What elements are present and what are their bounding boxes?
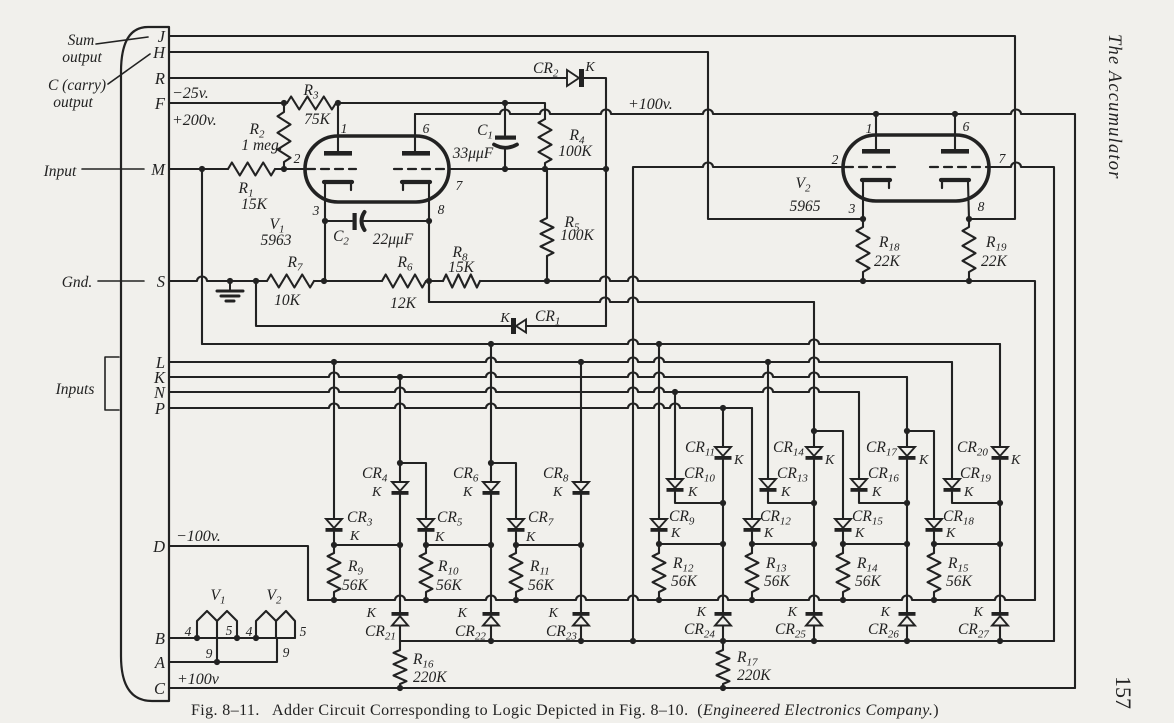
V2 pin 3 lead	[862, 182, 864, 219]
node CR19 bottom	[997, 500, 1003, 506]
wire CR15 node to CR17 column	[843, 543, 907, 545]
svg-text:S: S	[157, 272, 165, 291]
label +100v.	[628, 96, 673, 113]
svg-text:6: 6	[963, 119, 970, 134]
label CR19	[960, 465, 991, 485]
node pin7 line junctions	[502, 166, 609, 172]
diode CR9	[651, 519, 668, 532]
svg-text:10K: 10K	[274, 292, 301, 309]
svg-text:K: K	[548, 606, 559, 621]
svg-text:K: K	[1010, 453, 1021, 468]
pointer line carry to H	[108, 54, 150, 84]
node M line junctions	[199, 166, 287, 172]
column CR6 from M-line	[490, 344, 492, 482]
label CR23	[546, 623, 577, 643]
resistor R2	[278, 103, 291, 169]
V2 grid line left (to matrix via x633)	[633, 163, 843, 642]
label R3	[303, 82, 319, 102]
node CR16 bottom	[904, 500, 910, 506]
svg-text:K: K	[584, 60, 595, 75]
label K of CR24	[696, 605, 707, 620]
V1 left cathode	[324, 182, 352, 190]
resistor R3	[287, 97, 336, 110]
label -100v.	[176, 528, 221, 545]
diode CR26	[899, 612, 916, 626]
column CR12 from P	[751, 408, 753, 519]
svg-text:K: K	[945, 526, 956, 541]
resistor R1	[228, 163, 275, 176]
svg-text:K: K	[854, 526, 865, 541]
resistor R18	[857, 219, 870, 281]
wire CR6 to CR22	[490, 495, 492, 612]
V1 pin 9 stub	[216, 638, 218, 662]
label 10K of R7	[274, 292, 301, 309]
svg-text:K: K	[499, 311, 510, 326]
label R11	[529, 558, 550, 578]
wire L row	[169, 358, 952, 363]
svg-text:56K: 56K	[436, 577, 463, 594]
node CR12 bottom	[749, 541, 817, 547]
wire CR21 to line641	[399, 626, 401, 642]
label CR5	[437, 509, 463, 529]
wire D -100v	[169, 546, 308, 600]
label 220K of R16	[413, 669, 447, 686]
wire CR20 to CR27	[999, 460, 1001, 612]
diode CR19	[944, 479, 961, 492]
resistor R17	[717, 641, 730, 688]
pointer line Gnd to S	[98, 280, 144, 282]
capacitor C1	[494, 136, 517, 148]
svg-text:P: P	[154, 399, 165, 418]
svg-text:K: K	[973, 605, 984, 620]
label Sum output	[62, 32, 102, 66]
label CR15	[852, 508, 883, 528]
terminal letters J H R F M S L K N P D B A C	[150, 27, 166, 698]
svg-text:K: K	[552, 485, 563, 500]
label K of CR22	[457, 606, 468, 621]
label K of CR23	[548, 606, 559, 621]
svg-text:4: 4	[185, 624, 192, 639]
label 12K of R6	[390, 295, 417, 312]
svg-text:100K: 100K	[560, 227, 594, 244]
wire CR12 node to CR14 column	[752, 543, 814, 545]
label CR2	[533, 60, 559, 80]
svg-text:Fig. 8–11. Adder Circuit Cor: Fig. 8–11. Adder Circuit Corresponding t…	[191, 702, 939, 719]
label K of CR20	[1010, 453, 1021, 468]
label CR24	[684, 621, 715, 641]
svg-text:3: 3	[312, 203, 320, 218]
column CR20 from M-line	[999, 344, 1001, 447]
label V2	[796, 175, 811, 195]
label CR27	[958, 621, 989, 641]
label R15	[947, 555, 969, 575]
label K of CR6	[462, 485, 473, 500]
label CR11	[685, 439, 715, 459]
svg-text:K: K	[871, 485, 882, 500]
diode CR12	[744, 519, 761, 532]
V1 pin 3 lead	[324, 184, 326, 281]
V1 pin 1 lead	[337, 103, 339, 151]
label R13	[765, 555, 787, 575]
label CR22	[455, 623, 486, 643]
V1 right cathode	[402, 182, 430, 190]
svg-text:220K: 220K	[413, 669, 447, 686]
wire CR27 to line641	[999, 626, 1001, 642]
label V2 heater	[267, 587, 282, 607]
svg-text:+200v.: +200v.	[172, 112, 217, 129]
wire CR2 cathode to CR1 (vertical x606)	[584, 78, 606, 326]
diode CR11	[715, 447, 732, 460]
svg-text:D: D	[152, 537, 165, 556]
svg-text:B: B	[155, 629, 165, 648]
ground symbol	[217, 281, 243, 301]
svg-text:K: K	[457, 606, 468, 621]
svg-text:22K: 22K	[981, 253, 1008, 270]
svg-text:56K: 56K	[528, 577, 555, 594]
V2 left cathode	[862, 180, 890, 188]
resistor R19	[963, 219, 976, 281]
svg-text:157: 157	[1111, 676, 1136, 709]
label 15K of R8	[448, 259, 475, 276]
wire R6-R8 segment	[426, 280, 443, 282]
label CR10	[684, 465, 715, 485]
label 22K of R18	[874, 253, 901, 270]
label 1 meg.	[241, 137, 282, 154]
diode CR21	[392, 612, 409, 626]
resistor R14	[837, 553, 850, 600]
label R7	[287, 254, 303, 274]
wire A rail	[169, 638, 277, 662]
diode CR1	[511, 318, 526, 334]
wire CR14 to CR25	[813, 460, 815, 612]
label 100K of R5	[560, 227, 594, 244]
node CR3 bottom	[331, 542, 403, 548]
svg-text:K: K	[733, 453, 744, 468]
svg-text:+100v.: +100v.	[628, 96, 673, 113]
label 75K of R3	[304, 111, 331, 128]
pointer line Input to M	[82, 168, 144, 170]
svg-text:A: A	[154, 653, 166, 672]
wire CR13 bottom to CR14 column	[768, 492, 814, 503]
diode CR14	[806, 447, 823, 460]
svg-text:K: K	[687, 485, 698, 500]
node L row junctions	[331, 359, 771, 365]
label V1	[270, 216, 285, 236]
svg-text:56K: 56K	[764, 573, 791, 590]
diode CR8	[573, 482, 590, 495]
wire CR7 bottom	[515, 532, 517, 553]
node CR7 bottom	[513, 542, 584, 548]
column CR17 from K	[906, 377, 908, 447]
node bus junctions	[331, 597, 937, 603]
resistor R4	[539, 119, 552, 169]
wire CR15 bottom	[842, 532, 844, 553]
label R18	[878, 234, 900, 254]
label CR13	[777, 465, 808, 485]
margin text The Accumulator	[1104, 34, 1124, 180]
wire CR3 node to CR4 column	[334, 544, 400, 546]
wire N row	[169, 388, 859, 393]
svg-text:5: 5	[226, 623, 233, 638]
branch CR4 to CR5	[400, 463, 426, 519]
V1 pin 8 lead	[428, 184, 430, 302]
svg-text:C (carry): C (carry)	[48, 77, 106, 94]
svg-text:K: K	[918, 453, 929, 468]
svg-text:15K: 15K	[241, 196, 268, 213]
svg-text:+100v: +100v	[177, 671, 220, 688]
svg-text:Sum: Sum	[68, 32, 95, 49]
svg-text:output: output	[62, 49, 102, 66]
label R1	[238, 180, 254, 200]
resistor R5	[541, 169, 554, 281]
label 56K of R12	[671, 573, 698, 590]
svg-text:22μμF: 22μμF	[373, 231, 414, 248]
label R2	[249, 121, 265, 141]
label K of CR27	[973, 605, 984, 620]
tube V2 envelope	[843, 135, 989, 201]
svg-text:K: K	[462, 485, 473, 500]
diode CR22	[483, 612, 500, 626]
branch CR17 to CR18	[907, 431, 934, 519]
label K of CR1	[499, 311, 510, 326]
label CR3	[347, 509, 373, 529]
svg-text:Input: Input	[43, 163, 77, 180]
V2 right cathode	[941, 180, 969, 188]
label CR8	[543, 465, 569, 485]
label +100v bottom	[177, 671, 220, 688]
wire CR3 to R9 node	[333, 532, 335, 553]
wire V1 cathode node line y302	[429, 281, 814, 302]
node CR10 bottom	[720, 500, 726, 506]
wire CR19 bottom to CR20 column	[952, 492, 1000, 503]
label +200v.	[172, 112, 217, 129]
node P row junctions	[720, 405, 726, 411]
node S rail junctions	[227, 278, 972, 284]
label R6	[397, 254, 413, 274]
label R9	[347, 558, 363, 578]
diode CR24	[715, 612, 732, 626]
svg-text:C: C	[154, 679, 166, 698]
wire CR22 to line641	[490, 626, 492, 642]
V1 grid dashes	[307, 168, 447, 170]
label CR9	[669, 508, 695, 528]
wire C2 row	[325, 220, 430, 222]
label K of CR3	[349, 529, 360, 544]
svg-text:22K: 22K	[874, 253, 901, 270]
diode CR16	[851, 479, 868, 492]
resistor R11	[510, 553, 523, 600]
wire M input line	[169, 168, 228, 170]
svg-text:2: 2	[832, 152, 839, 167]
label CR16	[868, 465, 899, 485]
label 56K of R9	[342, 577, 369, 594]
svg-text:220K: 220K	[737, 667, 771, 684]
svg-text:K: K	[824, 453, 835, 468]
V1 pin 6 lead	[414, 114, 416, 151]
column CR8 from L	[580, 362, 582, 482]
column CR4 from K	[399, 377, 401, 482]
label CR25	[775, 621, 806, 641]
wire R -25v rail	[169, 77, 567, 79]
svg-text:K: K	[525, 530, 536, 545]
resistor R10	[420, 553, 433, 600]
wire M-line to matrix	[202, 340, 1000, 345]
label K of CR5	[434, 530, 445, 545]
V2 right plate	[941, 149, 969, 154]
svg-text:75K: 75K	[304, 111, 331, 128]
svg-text:Gnd.: Gnd.	[62, 274, 93, 291]
label K of CR4	[371, 485, 382, 500]
wire H carry-output rail	[169, 52, 863, 219]
node CR14 branch	[811, 428, 817, 434]
label R8	[452, 244, 468, 264]
svg-text:56K: 56K	[671, 573, 698, 590]
label 220K of R17	[737, 667, 771, 684]
resistor R12	[653, 553, 666, 600]
svg-text:5: 5	[300, 624, 307, 639]
diode CR13	[760, 479, 777, 492]
label K of CR26	[880, 605, 891, 620]
wire CR18 bottom	[933, 532, 935, 553]
label R19	[985, 234, 1007, 254]
resistor R7	[267, 275, 314, 288]
node CR6 branch	[488, 460, 494, 466]
column CR9 from M-line	[658, 344, 660, 519]
svg-text:100K: 100K	[558, 143, 592, 160]
label C2	[333, 228, 349, 248]
wire R3 to R4 top stub	[336, 103, 545, 119]
node CR5 bottom	[423, 542, 494, 548]
label K of CR11	[733, 453, 744, 468]
label CR20	[957, 439, 988, 459]
svg-text:9: 9	[283, 645, 290, 660]
node V2 pin3/pin8 junctions	[860, 216, 972, 222]
label K of CR13	[780, 485, 791, 500]
label K of CR12	[763, 526, 774, 541]
label 100K of R4	[558, 143, 592, 160]
caption Fig. 8-11	[191, 702, 939, 719]
wire CR24 to line641	[722, 626, 724, 642]
wire K row	[169, 373, 907, 378]
label CR21	[365, 623, 396, 643]
column CR3 from L	[333, 362, 335, 519]
wire B heater rail	[169, 637, 295, 639]
node CR17 branch	[904, 428, 910, 434]
svg-text:K: K	[880, 605, 891, 620]
svg-text:−100v.: −100v.	[176, 528, 221, 545]
wire S rail right extension	[480, 277, 1035, 601]
wire CR26 to line641	[906, 626, 908, 642]
diode CR27	[992, 612, 1009, 626]
svg-text:output: output	[53, 94, 93, 111]
svg-text:F: F	[154, 94, 166, 113]
label K of CR16	[871, 485, 882, 500]
column CR13 from L	[767, 362, 769, 479]
wire CR7 node to CR8 column	[516, 544, 581, 546]
svg-text:56K: 56K	[946, 573, 973, 590]
svg-text:8: 8	[438, 202, 445, 217]
svg-text:M: M	[150, 160, 166, 179]
label 33uuF of C1	[452, 145, 494, 162]
C1 leads	[504, 103, 506, 169]
wire CR9 bottom	[658, 532, 660, 553]
label 56K of R11	[528, 577, 555, 594]
svg-text:5965: 5965	[790, 198, 821, 215]
V2 left plate	[862, 149, 890, 154]
diode CR7	[508, 519, 525, 532]
svg-text:56K: 56K	[855, 573, 882, 590]
node +100v V2 plate taps	[873, 111, 958, 117]
node C rail junctions	[397, 685, 726, 691]
label R5	[564, 214, 580, 234]
svg-text:9: 9	[206, 646, 213, 661]
diode CR10	[667, 479, 684, 492]
svg-text:K: K	[763, 526, 774, 541]
label CR12	[760, 508, 791, 528]
branch CR14 to CR15	[814, 431, 843, 519]
connector strip outline	[121, 27, 169, 701]
diode CR6	[483, 482, 500, 495]
resistor R15	[928, 553, 941, 600]
label V1 heater	[211, 587, 226, 607]
heater pin labels	[185, 623, 307, 661]
label 56K of R14	[855, 573, 882, 590]
column CR16 from N	[858, 392, 860, 479]
wire S gnd rail	[169, 277, 267, 282]
wire R1 to tube pin 2	[275, 168, 305, 170]
node CR13 bottom	[811, 500, 817, 506]
wire CR16 bottom to CR17 column	[859, 492, 907, 503]
diode CR23	[573, 612, 590, 626]
wire C +100v rail	[169, 687, 1075, 689]
svg-text:Inputs: Inputs	[55, 381, 95, 398]
branch CR6 to CR7	[491, 463, 516, 519]
wire CR11 to CR24	[722, 460, 724, 612]
svg-text:4: 4	[246, 624, 253, 639]
capacitor C2	[353, 212, 365, 230]
V2 grid dashes	[845, 166, 987, 168]
label K of CR25	[787, 605, 798, 620]
label Input	[43, 163, 77, 180]
column CR10 from N	[674, 392, 676, 479]
pointer line Sum to J	[96, 37, 148, 44]
svg-text:56K: 56K	[342, 577, 369, 594]
wire CR1 left leg	[256, 281, 511, 326]
wire R7-R6 segment	[314, 280, 382, 282]
node CR4 branch	[397, 460, 403, 466]
svg-text:8: 8	[978, 199, 985, 214]
V1 heater arches	[197, 611, 237, 638]
node heater junctions	[194, 635, 259, 665]
label Gnd.	[62, 274, 93, 291]
node N row junctions	[672, 389, 678, 395]
wire CR12 bottom	[751, 532, 753, 553]
page number 157	[1111, 676, 1136, 709]
V1 left plate	[324, 151, 352, 156]
wire -100v bus	[308, 596, 1035, 601]
label K of CR7	[525, 530, 536, 545]
label CR7	[528, 509, 554, 529]
label K of CR21	[366, 606, 377, 621]
V2 pin 1 lead	[875, 114, 877, 149]
label C (carry) output	[48, 77, 106, 111]
wire P row	[169, 404, 752, 409]
node CR18 bottom	[931, 541, 1003, 547]
label 56K of R15	[946, 573, 973, 590]
svg-text:33μμF: 33μμF	[452, 145, 494, 162]
node F rail junctions	[281, 100, 508, 106]
label CR17	[866, 439, 897, 459]
